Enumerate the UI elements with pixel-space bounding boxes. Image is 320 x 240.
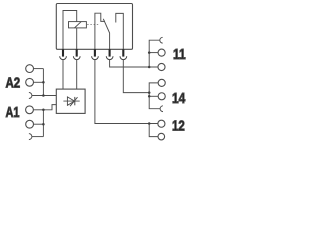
junction A1	[42, 109, 45, 112]
svg-text:11: 11	[173, 47, 186, 63]
A1 stub lower	[34, 123, 44, 125]
relay body box	[56, 4, 132, 50]
diode V1	[67, 97, 74, 105]
socket 14	[160, 106, 163, 112]
bus 14	[149, 83, 160, 109]
wire pin1 to input box	[62, 60, 64, 90]
wire pin3 to 12	[95, 60, 158, 124]
terminal 11 circle lower	[158, 63, 165, 70]
pin 4 plug	[109, 49, 111, 56]
socket 3	[92, 56, 99, 59]
junction 11 mid	[148, 51, 151, 54]
junction 11 bottom	[148, 66, 151, 69]
terminal A1 socket	[29, 134, 32, 140]
socket 11	[160, 37, 163, 43]
coil slash	[74, 22, 81, 28]
terminal 11 circle upper	[158, 49, 165, 56]
pin 3 plug	[94, 49, 96, 56]
junction A2	[42, 81, 45, 84]
mechanical linkage (dashed)	[87, 23, 100, 25]
terminal 14 circle upper	[158, 79, 165, 86]
wire pin5 to 14	[123, 60, 149, 93]
A1 bus	[42, 110, 44, 137]
terminal A2 circle lower	[26, 78, 34, 86]
junction A1 lower	[42, 123, 45, 126]
A2 wire to box	[32, 95, 57, 97]
terminal A2 socket	[29, 93, 32, 99]
junction A2 bottom	[42, 94, 45, 97]
socket 5	[120, 56, 127, 59]
svg-text:A1: A1	[6, 105, 20, 121]
terminal A1 circle lower	[26, 120, 34, 128]
relay coil K1	[69, 22, 87, 28]
terminal A1 circle upper	[26, 106, 34, 114]
wire pin2 to input box	[76, 60, 78, 90]
A1 wire to box	[43, 105, 56, 110]
svg-text:14: 14	[172, 91, 185, 107]
NC fixed contact	[95, 13, 105, 49]
pin 1 plug	[62, 49, 64, 56]
junction 14 stub	[148, 95, 151, 98]
A2 stub upper	[34, 68, 44, 70]
coil loop wire	[63, 11, 77, 50]
input protection box	[56, 89, 85, 113]
stub 14	[149, 95, 158, 97]
A1 stub upper	[33, 109, 43, 111]
A1 arc stub	[32, 136, 44, 138]
svg-text:A2: A2	[6, 76, 21, 92]
socket 1	[60, 56, 67, 59]
socket 2	[73, 56, 80, 59]
pin 2 plug	[76, 49, 78, 56]
diode cathode bar	[74, 97, 76, 105]
switch blade (common)	[103, 19, 109, 50]
NO fixed contact	[116, 13, 124, 49]
diode lead	[63, 100, 79, 102]
svg-text:12: 12	[172, 118, 185, 134]
A2 bus	[42, 69, 44, 96]
pin 5 plug	[122, 49, 124, 56]
terminal A2 circle upper	[26, 65, 34, 73]
terminal 12 circle lower	[158, 133, 165, 140]
diode slash	[70, 97, 78, 106]
A2 stub lower	[34, 81, 44, 83]
wire pin4 to 11	[110, 60, 158, 67]
stub 11	[149, 52, 158, 54]
junction 12	[148, 122, 151, 125]
bus 12	[149, 124, 158, 137]
junction 14 wire	[148, 91, 151, 94]
terminal 14 circle lower	[158, 93, 165, 100]
terminal 12 circle upper	[158, 120, 165, 127]
bus 11	[149, 40, 160, 67]
socket 4	[106, 56, 113, 59]
